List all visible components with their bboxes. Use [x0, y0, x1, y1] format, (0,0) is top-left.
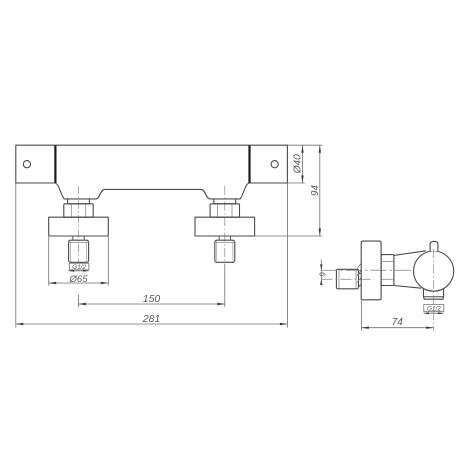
- side view: handle circle: [414, 251, 454, 291]
- right hex nut: [210, 204, 239, 217]
- svg-text:94: 94: [310, 185, 321, 197]
- G1/2 dimension left: [69, 270, 89, 272]
- left escutcheon: [49, 217, 109, 236]
- side view: outlet: [424, 285, 444, 299]
- right G1/2 fitting: [215, 240, 235, 262]
- side view: wall flange: [361, 241, 381, 300]
- side view: neck between fitting and flange: [359, 273, 362, 275]
- dimension Ø40: [287, 144, 322, 146]
- wall fitting axis: [322, 278, 375, 280]
- side view: top knob: [430, 241, 438, 251]
- left neck ticks: [72, 236, 74, 240]
- svg-text:G1/2: G1/2: [72, 264, 86, 271]
- left hex nut: [64, 204, 93, 217]
- svg-text:150: 150: [143, 293, 161, 305]
- dimension 94: [254, 235, 322, 237]
- svg-text:Ø65: Ø65: [69, 274, 89, 285]
- right escutcheon: [195, 217, 255, 236]
- left plate inner edge (thick): [54, 145, 56, 183]
- dimension 281: [15, 184, 17, 328]
- side view: valve body: [394, 251, 426, 256]
- valve axis: [321, 269, 411, 271]
- left plate hole: [23, 161, 30, 168]
- G1/2 dimension side: [424, 312, 444, 314]
- svg-text:9: 9: [319, 272, 328, 277]
- left connector centerline: [78, 186, 80, 264]
- svg-text:281: 281: [142, 313, 161, 325]
- left washer: [68, 199, 90, 204]
- right neck ticks: [218, 236, 220, 240]
- right washer: [214, 199, 236, 204]
- svg-text:74: 74: [392, 317, 404, 328]
- side view: nut: [381, 255, 394, 286]
- right plate hole: [271, 161, 278, 168]
- side view: vertical centerline: [433, 249, 435, 331]
- right plate inner edge (thick): [248, 145, 250, 183]
- G1/2 label box left: [69, 263, 89, 270]
- dimension 74: [360, 300, 362, 330]
- dimension Ø65: [48, 237, 50, 286]
- wall bar outline (front view): [16, 145, 288, 199]
- G1/2 label box side: [424, 305, 444, 312]
- right connector centerline: [224, 186, 226, 265]
- dimension 9: [320, 260, 322, 285]
- svg-text:Ø40: Ø40: [292, 154, 303, 174]
- svg-text:G1/2: G1/2: [427, 305, 441, 312]
- dimension 150: [78, 295, 80, 307]
- left G1/2 fitting: [69, 240, 89, 262]
- side view: wall fitting: [336, 269, 358, 289]
- thread hatching on wall fitting end: [357, 264, 361, 269]
